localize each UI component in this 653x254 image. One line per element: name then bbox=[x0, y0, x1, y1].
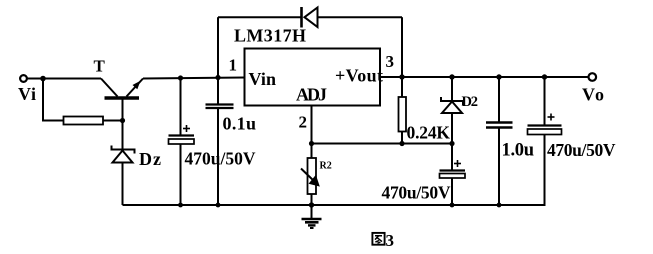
svg-text:0.1u: 0.1u bbox=[223, 114, 257, 134]
svg-text:3: 3 bbox=[386, 231, 395, 249]
svg-text:T: T bbox=[94, 57, 106, 76]
svg-text:3: 3 bbox=[386, 52, 395, 71]
svg-text:R2: R2 bbox=[320, 161, 332, 172]
svg-text:1: 1 bbox=[229, 56, 238, 75]
svg-text:Dz: Dz bbox=[139, 149, 161, 169]
svg-text:+Vout: +Vout bbox=[335, 66, 383, 86]
svg-text:D2: D2 bbox=[462, 94, 479, 110]
svg-text:470u/50V: 470u/50V bbox=[547, 140, 616, 160]
svg-text:0.24K: 0.24K bbox=[407, 123, 451, 143]
svg-text:470u/50V: 470u/50V bbox=[185, 149, 256, 169]
svg-text:LM317H: LM317H bbox=[234, 26, 306, 46]
svg-text:ADJ: ADJ bbox=[296, 85, 327, 105]
svg-text:1.0u: 1.0u bbox=[502, 141, 535, 161]
svg-text:2: 2 bbox=[299, 113, 308, 132]
svg-text:Vin: Vin bbox=[249, 69, 277, 89]
svg-text:Vi: Vi bbox=[18, 84, 36, 104]
svg-text:470u/50V: 470u/50V bbox=[382, 183, 451, 203]
svg-text:Vo: Vo bbox=[582, 85, 604, 105]
